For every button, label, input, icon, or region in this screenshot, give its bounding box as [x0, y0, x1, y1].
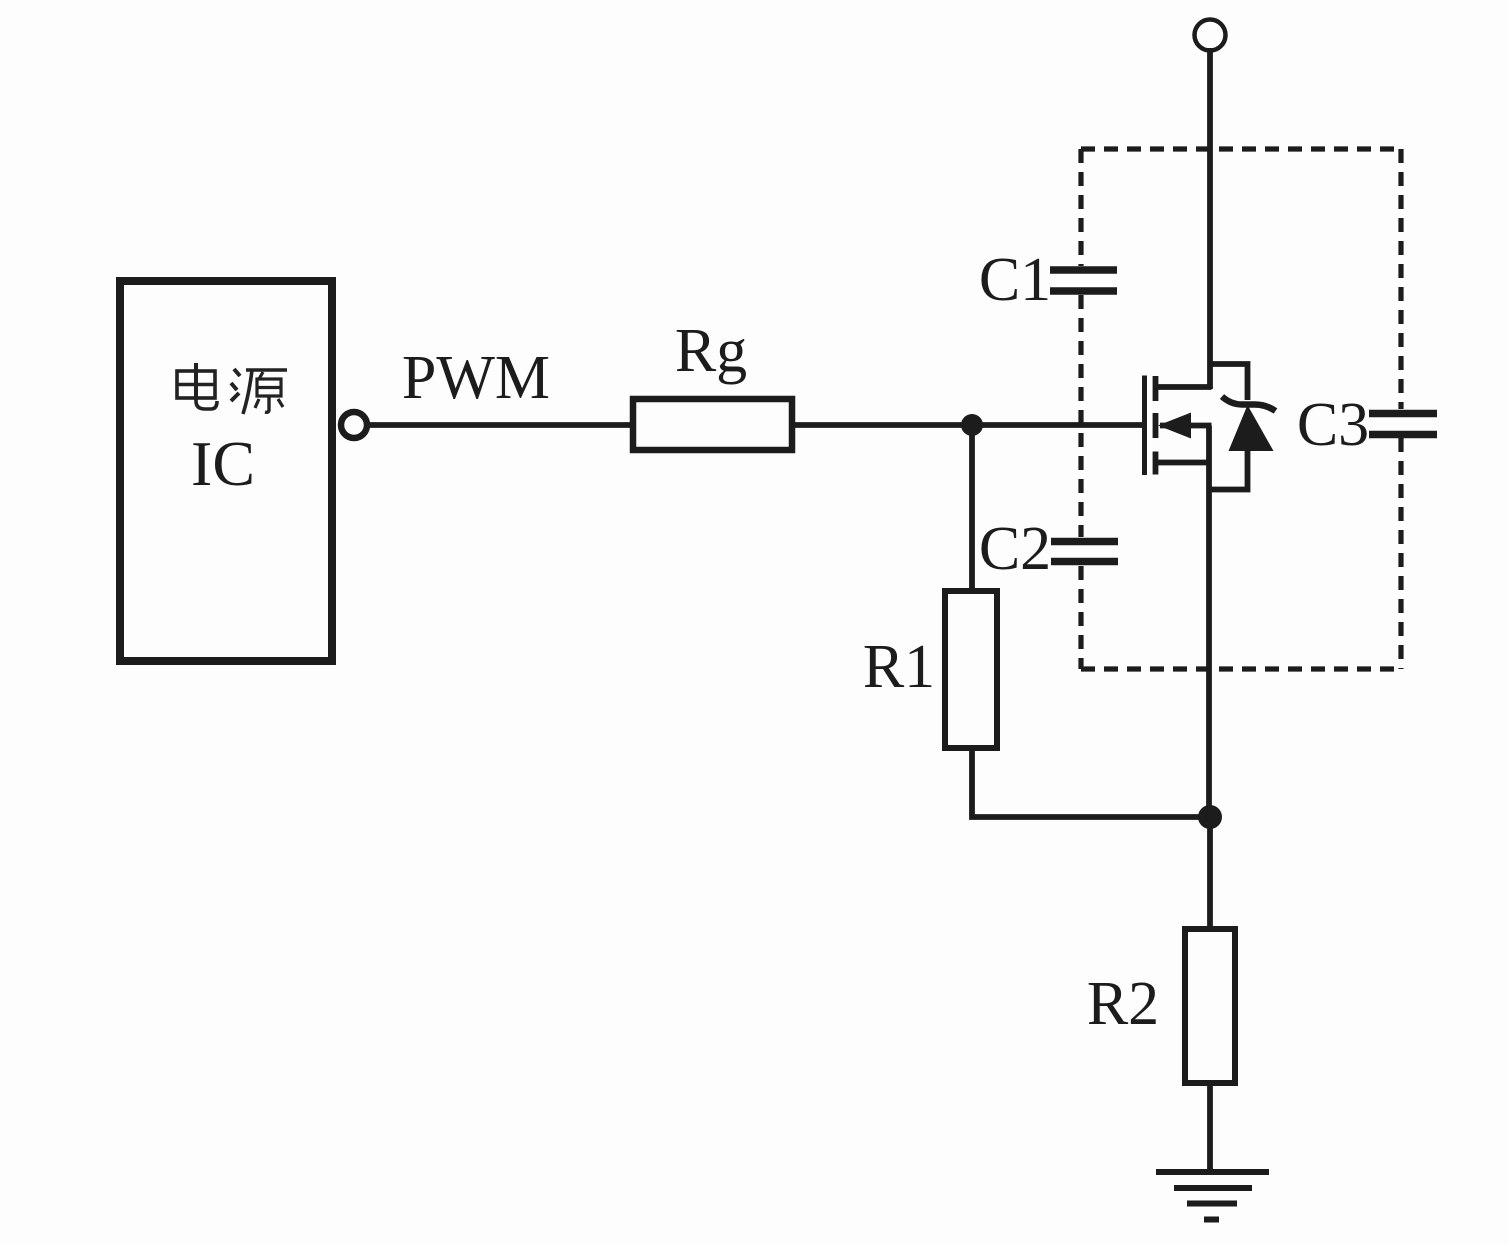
capacitor C3: [1369, 414, 1437, 435]
body diode triangle: [1229, 405, 1274, 451]
wire node to R2: [1207, 817, 1213, 929]
dashed module box top edge: [1081, 146, 1401, 151]
label C3: [1297, 391, 1369, 459]
label 电源 (drawn strokes): [177, 363, 287, 414]
wire Rg to gate: [795, 422, 1145, 428]
IC box (power IC): [120, 281, 332, 661]
body diode top jog wire: [1209, 364, 1248, 400]
label Rg: [675, 317, 747, 385]
wire R2 to ground: [1207, 1083, 1213, 1172]
transistor Q1 source vertical wire down to node: [1206, 426, 1212, 818]
wire R1 bottom to node: [972, 748, 1210, 817]
transistor Q1 gate bar: [1142, 376, 1147, 476]
svg-text:PWM: PWM: [402, 344, 550, 412]
wire junction down to R1: [969, 425, 975, 592]
wire PWM: terminal to Rg: [366, 422, 633, 428]
dashed module box left edge (interrupted by C1, C2): [1078, 149, 1083, 669]
svg-text:R2: R2: [1087, 970, 1159, 1038]
transistor Q1 channel segments: [1153, 376, 1159, 475]
capacitor C2: [1051, 542, 1118, 562]
label R1: [863, 633, 935, 701]
电: [194, 363, 198, 398]
svg-text:R1: R1: [863, 633, 935, 701]
源: [234, 369, 240, 376]
transistor Q1 drain stub: [1156, 384, 1212, 390]
label PWM: [402, 344, 550, 412]
label IC: [191, 428, 255, 499]
top terminal circle: [1195, 20, 1226, 51]
dashed module box bottom edge: [1081, 666, 1401, 671]
dashed module box right edge (interrupted by C3): [1398, 149, 1403, 669]
transistor Q1 body stub with arrow: [1158, 413, 1212, 439]
resistor R1: [945, 591, 997, 748]
svg-text:C2: C2: [979, 515, 1051, 583]
wire top terminal to drain: [1207, 48, 1213, 389]
node junction at gate branch: [961, 414, 983, 436]
label R2: [1087, 970, 1159, 1038]
node at source/R2 junction: [1198, 805, 1222, 829]
resistor Rg: [633, 399, 792, 450]
ground: [1156, 1172, 1269, 1220]
svg-text:C1: C1: [979, 246, 1051, 314]
label C2: [979, 515, 1051, 583]
transistor Q1 source stub: [1156, 460, 1212, 466]
label C1: [979, 246, 1051, 314]
svg-text:Rg: Rg: [675, 317, 747, 385]
svg-text:C3: C3: [1297, 391, 1369, 459]
capacitor C1: [1050, 270, 1117, 291]
svg-text:IC: IC: [191, 428, 255, 499]
body diode cathode bar (curved): [1222, 397, 1276, 412]
terminal circle on IC output: [341, 412, 367, 438]
resistor R2: [1185, 929, 1235, 1083]
body diode bottom jog wire: [1209, 448, 1248, 490]
